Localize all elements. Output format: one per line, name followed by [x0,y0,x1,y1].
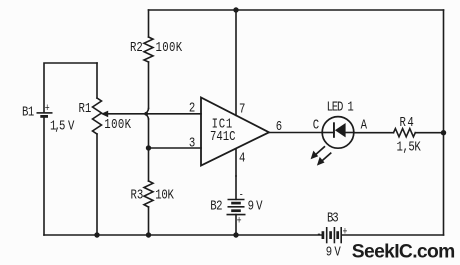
wire wiper to pin 2 [108,113,202,115]
svg-text:A: A [361,117,368,133]
resistor R1 [93,98,102,134]
svg-text:100K: 100K [156,40,183,56]
svg-text:6: 6 [276,118,282,134]
battery B2 long plates [228,199,245,201]
wire node to R3 [148,148,150,181]
battery B2 short plates [231,202,241,205]
wire R1 bottom lead [96,134,98,235]
svg-text:R4: R4 [400,115,416,131]
wire R2 bottom lead to crossover [148,62,150,109]
resistor R3 [144,181,153,207]
svg-text:-: - [317,228,322,240]
wire LED internal left [322,132,334,134]
node dot top pin7 [233,7,238,12]
wire R2 top lead [148,10,150,37]
wire bottom rail left segment [44,234,322,236]
wiper arrowhead R1 [101,111,108,118]
svg-text:R2: R2 [130,40,143,56]
node dot B2 bottom [233,232,238,237]
wire pin 4 [235,149,237,176]
wire top rail [149,9,444,11]
crossover blob [144,112,148,116]
wire pin 7 [235,10,237,115]
wire R4 to right rail [415,132,443,134]
op-amp IC1 triangle [201,98,269,166]
svg-text:741C: 741C [210,129,236,145]
wire output pin 6 [269,132,322,134]
battery B2 wire bottom lead [235,215,237,235]
wire R3 bottom lead [148,207,150,235]
node dot R4 right [441,130,446,135]
node dot R1 bottom [94,232,99,237]
LED light arrow 2 [317,153,331,166]
svg-text:1,5 V: 1,5 V [50,118,75,134]
svg-text:2: 2 [189,100,195,116]
svg-text:B3: B3 [327,210,338,226]
svg-text:-: - [239,188,244,200]
wire right rail [443,10,445,235]
svg-text:R3: R3 [131,187,144,203]
svg-text:4: 4 [239,150,245,166]
svg-text:100K: 100K [104,117,131,133]
wire LED internal right [346,132,355,134]
svg-text:7: 7 [239,101,245,117]
svg-text:B2: B2 [210,198,222,214]
svg-text:3: 3 [189,135,195,151]
svg-text:C: C [313,117,319,133]
wire crossover to node pin3 [148,119,150,148]
battery B2 wire top lead [235,176,237,199]
svg-text:LED 1: LED 1 [327,99,354,115]
wire left branch with B1 top [44,63,97,112]
node dot pin3 junction [146,145,151,150]
resistor R4 [394,129,416,137]
battery B1 long plate [37,112,53,114]
svg-text:+: + [343,225,348,237]
LED light arrow 1 [311,146,325,159]
svg-text:1,5K: 1,5K [397,139,422,155]
wire bottom rail right segment [343,234,444,236]
svg-text:SeekIC.com: SeekIC.com [352,241,455,262]
wire pin 3 [149,147,202,149]
LED triangle [335,123,346,137]
resistor R2 [144,37,153,62]
svg-text:R1: R1 [79,101,92,117]
wire left branch with B1 bottom [43,116,45,235]
wire R1 top lead [96,63,98,98]
battery B1 short plate [40,115,48,118]
svg-text:+: + [45,102,50,114]
wire LED to R4 [354,132,394,134]
node dot R3 bottom [146,232,151,237]
svg-text:+: + [237,214,242,226]
battery B3 tall plates [326,227,328,243]
LED1 circle [322,117,354,149]
wire crossover jog [146,109,149,120]
LED cathode bar [333,122,335,138]
svg-text:10K: 10K [155,187,174,203]
svg-text:B1: B1 [22,104,34,120]
battery B3 short plates [322,231,325,239]
